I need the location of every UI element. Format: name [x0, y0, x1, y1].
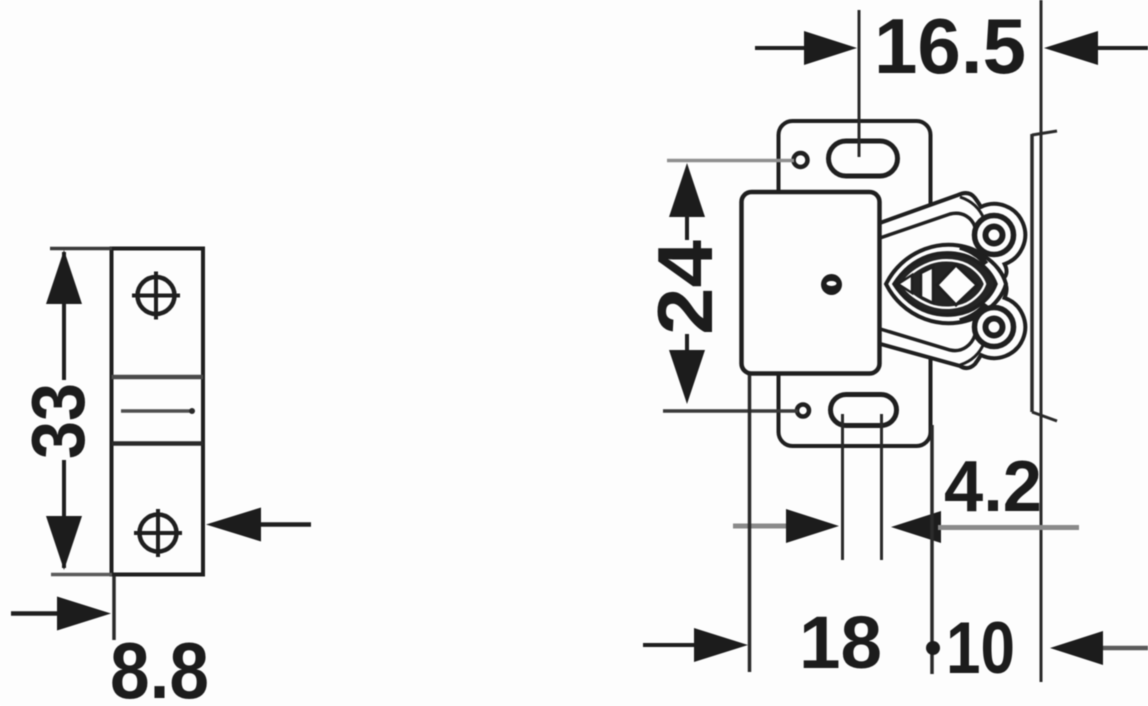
dimension 16.5 left arrow (pointing right) — [755, 46, 815, 50]
catch body — [742, 192, 880, 374]
interior line lower — [112, 441, 204, 446]
roller band connector top — [960, 247, 986, 264]
spear white diamond — [937, 265, 977, 305]
bottom roller ring — [975, 308, 1014, 347]
body-left extension line — [748, 375, 752, 672]
spear leaf inner line 1 — [894, 253, 996, 315]
right extension line (long) — [1040, 0, 1043, 682]
dim 24 down arrowhead — [685, 334, 689, 352]
bottom edge extension line — [51, 573, 112, 577]
dimension 8.8 arrow (pointing right) — [11, 611, 70, 616]
dim 4.2 right arrow (pointing left) — [891, 511, 941, 543]
svg-text:33: 33 — [16, 383, 100, 459]
bottom vertical extension line — [112, 576, 116, 640]
bottom small hole — [797, 405, 809, 417]
slot extension line right — [880, 414, 883, 560]
bottom arm inner edge — [877, 328, 975, 351]
svg-text:4.2: 4.2 — [944, 447, 1042, 527]
spear white sliver — [921, 267, 933, 303]
spear leaf outer — [886, 245, 1006, 323]
screw hole bottom (circle with cross) — [134, 509, 182, 557]
roller band connector bottom — [960, 304, 986, 321]
wall line bottom tick — [1032, 412, 1057, 421]
svg-text:18: 18 — [799, 601, 882, 684]
interior line middle end dot — [189, 408, 195, 414]
label 33 (rotated) — [16, 380, 100, 460]
plate-right extension line — [930, 425, 934, 674]
bottom right arrow (pointing left) — [1100, 646, 1148, 651]
svg-text:8.8: 8.8 — [110, 626, 209, 706]
dim 24 top extension line — [667, 159, 794, 163]
dimension 33 down arrowhead — [46, 516, 82, 570]
interior line middle — [121, 409, 194, 413]
wall line with end ticks — [1030, 134, 1034, 412]
top roller hub — [986, 227, 1003, 244]
dim 24 up arrowhead — [669, 163, 705, 217]
roller assembly silhouette — [877, 193, 1025, 368]
mounting plate outline — [779, 121, 931, 446]
slot extension line left — [841, 414, 844, 560]
svg-text:10: 10 — [946, 608, 1015, 689]
dimension 33 line — [62, 252, 66, 568]
svg-text:16.5: 16.5 — [874, 2, 1026, 90]
bottom slot — [831, 395, 897, 426]
dimension 16.5 right arrow (pointing left) — [1090, 46, 1148, 50]
junction dot — [926, 641, 940, 655]
bottom left arrow (pointing right) — [643, 643, 700, 647]
body center dot — [821, 274, 842, 295]
top slot — [829, 141, 898, 176]
top arm inner edge — [877, 213, 975, 239]
slot centre line — [858, 10, 861, 157]
dimension 33 up arrowhead — [46, 250, 82, 304]
wall line top tick — [1032, 131, 1057, 135]
svg-text:24: 24 — [641, 240, 729, 335]
spear tip white triangle — [898, 275, 912, 293]
top roller ring — [975, 216, 1014, 255]
screw hole top (circle with cross) — [132, 272, 180, 320]
side plate outline — [112, 249, 204, 575]
top edge extension line — [50, 247, 112, 251]
bottom arm fold line — [960, 343, 984, 365]
spear leaf inner line 2 — [902, 260, 985, 308]
arrow pointing left at lower screw — [258, 522, 311, 527]
interior line upper — [112, 375, 204, 380]
top arm fold line — [960, 197, 984, 219]
top small hole — [794, 153, 808, 167]
bottom roller hub — [986, 319, 1003, 336]
dim 4.2 left arrow (pointing right) — [733, 524, 790, 529]
dim 24 bottom extension line — [663, 409, 798, 413]
